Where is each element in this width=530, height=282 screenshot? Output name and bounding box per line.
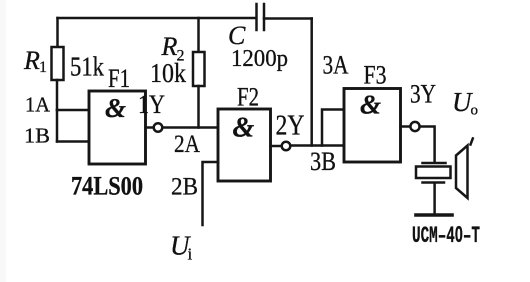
svg-text:3B: 3B bbox=[310, 147, 336, 176]
wire: 3A branch up and into F3 bbox=[322, 110, 344, 146]
wire: node 2Y/3B from bubble to F3 bbox=[290, 144, 344, 147]
label R1 bbox=[23, 46, 47, 76]
wire: R1 bottom to 1A node bbox=[56, 80, 59, 110]
ground bbox=[416, 213, 452, 217]
wire: R2 top drop from rail bbox=[197, 18, 200, 52]
transducer BZ bottom plate bbox=[423, 181, 445, 184]
svg-text:1Y: 1Y bbox=[138, 90, 165, 119]
wire: 3Y to transducer top bbox=[420, 127, 435, 163]
capacitor C right plate bbox=[263, 4, 266, 30]
wire: transducer bottom to ground bbox=[433, 184, 436, 213]
svg-text:3A: 3A bbox=[323, 51, 349, 80]
wire: 1B input into F1 bbox=[57, 140, 90, 143]
resistor R1 body bbox=[52, 47, 64, 80]
node Uo output bbox=[452, 87, 478, 119]
wire: 1A input into F1 bbox=[57, 109, 90, 112]
wire: node 1Y/2A from bubble to F2 bbox=[162, 126, 218, 129]
label R2 bbox=[161, 32, 185, 65]
wire: feedback drop from C to 2Y/3B net bbox=[310, 19, 313, 146]
bubble: F3 output inversion circle bbox=[410, 122, 419, 131]
capacitor C left plate bbox=[255, 4, 258, 30]
svg-text:o: o bbox=[471, 103, 479, 119]
wire: R2 bottom down to 2A wire junction bbox=[197, 86, 200, 128]
wire: 2B input from Ui riser bbox=[203, 162, 219, 225]
svg-text:&: & bbox=[233, 113, 255, 144]
wire: F2 output stub 2Y bbox=[271, 145, 282, 148]
resistor R2 body bbox=[193, 52, 205, 86]
wire: F3 output stub 3Y bbox=[401, 125, 411, 128]
tick mark above horn bbox=[471, 139, 473, 145]
svg-text:1A: 1A bbox=[25, 93, 51, 117]
wire: top rail from R1 top to capacitor C left plate bbox=[58, 17, 257, 20]
svg-text:F2: F2 bbox=[237, 83, 259, 112]
svg-text:UCM–40–T: UCM–40–T bbox=[412, 221, 480, 249]
transducer BZ top plate bbox=[423, 162, 446, 165]
wire: F1 output stub 1Y bbox=[146, 126, 154, 129]
svg-text:51k: 51k bbox=[70, 52, 104, 82]
svg-text:F3: F3 bbox=[364, 61, 387, 90]
gate F2 box bbox=[218, 109, 271, 181]
svg-text:3Y: 3Y bbox=[410, 80, 436, 109]
svg-text:1: 1 bbox=[39, 59, 47, 76]
wire: tie between 1A and 1B bbox=[56, 110, 59, 142]
svg-text:74LS00: 74LS00 bbox=[71, 172, 143, 201]
gate F1 box bbox=[89, 91, 146, 164]
svg-text:&: & bbox=[360, 90, 381, 120]
bubble: F2 output inversion circle bbox=[282, 142, 291, 151]
svg-text:R: R bbox=[161, 32, 178, 61]
svg-text:2Y: 2Y bbox=[276, 111, 305, 142]
svg-text:R: R bbox=[23, 46, 40, 75]
svg-text:&: & bbox=[105, 93, 126, 123]
transducer horn cone bbox=[456, 146, 468, 199]
gate F3 box bbox=[344, 89, 401, 163]
svg-text:2A: 2A bbox=[174, 131, 200, 158]
svg-text:2B: 2B bbox=[171, 174, 198, 201]
node Ui input bbox=[170, 231, 193, 264]
wire: left drop from top rail to R1 bbox=[56, 18, 59, 47]
bubble: F1 output inversion circle bbox=[154, 123, 163, 132]
svg-text:i: i bbox=[188, 245, 193, 264]
svg-text:F1: F1 bbox=[108, 64, 130, 93]
svg-text:1B: 1B bbox=[24, 124, 50, 148]
transducer BZ crystal body bbox=[416, 167, 451, 179]
svg-text:1200p: 1200p bbox=[231, 46, 288, 72]
wire: C right plate to 3A drop bbox=[264, 17, 312, 20]
scan edge left strip bbox=[0, 0, 6, 282]
svg-text:10k: 10k bbox=[150, 58, 186, 88]
